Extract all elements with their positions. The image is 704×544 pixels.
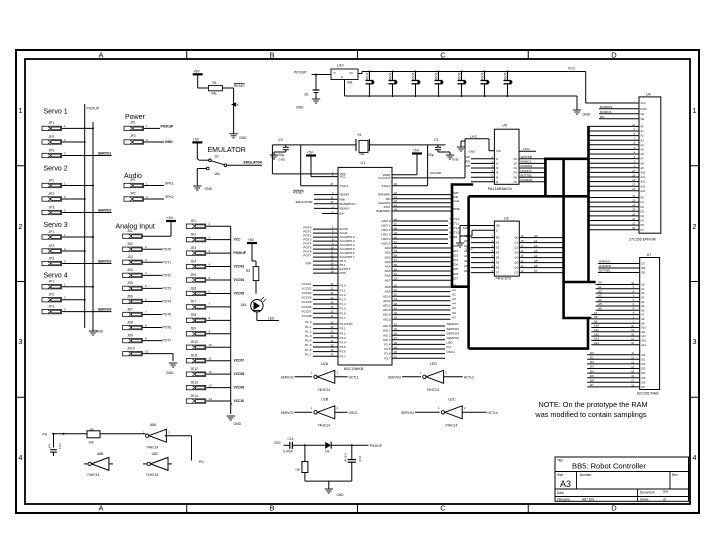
svg-text:VAL: VAL xyxy=(347,81,353,85)
svg-text:VCC: VCC xyxy=(641,101,647,105)
svg-text:AD5: AD5 xyxy=(464,259,470,263)
svg-text:A9: A9 xyxy=(641,321,645,325)
svg-text:100n: 100n xyxy=(434,73,438,81)
svg-text:2: 2 xyxy=(692,222,696,231)
svg-text:Servo 4: Servo 4 xyxy=(44,273,68,280)
svg-text:100n: 100n xyxy=(503,73,507,81)
label Servo 2 xyxy=(44,166,68,173)
svg-text:GND: GND xyxy=(166,371,174,375)
svg-text:AD14: AD14 xyxy=(383,313,391,317)
pins U7 control xyxy=(598,260,646,275)
svg-text:A1: A1 xyxy=(452,288,456,292)
svg-text:2: 2 xyxy=(18,222,22,231)
+5V (reset) xyxy=(193,70,209,89)
wire (osc mid) xyxy=(293,444,325,446)
wire (osc gnd rail) xyxy=(305,480,352,482)
ground (JE bus) xyxy=(227,416,242,426)
svg-text:SERVO3: SERVO3 xyxy=(447,331,460,335)
svg-text:A8: A8 xyxy=(641,317,645,321)
svg-text:NMI: NMI xyxy=(340,197,346,201)
svg-text:+5V: +5V xyxy=(193,70,200,74)
capacitor C2 20p xyxy=(270,138,289,162)
connector JD6 xyxy=(123,294,172,303)
svg-text:Q5: Q5 xyxy=(514,261,518,265)
svg-text:BOTSEL: BOTSEL xyxy=(521,173,533,177)
svg-text:SERVO4: SERVO4 xyxy=(401,411,414,415)
svg-text:LED: LED xyxy=(447,341,454,345)
svg-text:A6: A6 xyxy=(598,307,602,311)
svg-text:Sheet: Sheet xyxy=(640,498,648,502)
connector JD8 xyxy=(123,320,172,329)
svg-text:14: 14 xyxy=(209,397,213,401)
svg-text:JP1: JP1 xyxy=(130,178,136,182)
svg-text:VCC03: VCC03 xyxy=(302,291,312,295)
svg-text:A5: A5 xyxy=(534,259,538,263)
svg-text:A11: A11 xyxy=(641,330,646,334)
svg-text:PAL16R8ACN: PAL16R8ACN xyxy=(488,187,512,191)
+5V rail (analog input) xyxy=(142,216,176,236)
svg-text:PL.6: PL.6 xyxy=(305,348,312,352)
svg-text:AD9: AD9 xyxy=(385,290,391,294)
svg-text:P3.1: P3.1 xyxy=(340,327,347,331)
connector JP2 Servo3 xyxy=(42,244,86,253)
svg-text:GND: GND xyxy=(205,187,213,191)
net RESET (pullup) xyxy=(231,84,245,134)
vertical net line PICKUP (servo bus) xyxy=(85,104,100,328)
svg-text:P2.6: P2.6 xyxy=(384,352,391,356)
svg-text:O5: O5 xyxy=(513,175,517,179)
svg-text:100n: 100n xyxy=(480,73,484,81)
svg-text:AD0: AD0 xyxy=(464,234,470,238)
svg-text:P3.5: P3.5 xyxy=(340,345,347,349)
connector JE1 xyxy=(186,219,230,228)
svg-text:O4: O4 xyxy=(513,171,517,175)
svg-text:20p: 20p xyxy=(428,153,434,157)
svg-text:CLK: CLK xyxy=(496,149,501,153)
svg-text:IO1: IO1 xyxy=(641,357,646,361)
pin XTAL2 xyxy=(382,145,428,188)
svg-text:VCC: VCC xyxy=(568,66,576,70)
svg-text:ROMDIS: ROMDIS xyxy=(600,105,612,109)
svg-text:74HC14: 74HC14 xyxy=(87,473,100,477)
svg-text:BB5: Robot Controller: BB5: Robot Controller xyxy=(572,462,646,471)
svg-text:P2.4: P2.4 xyxy=(384,343,391,347)
svg-text:JP2: JP2 xyxy=(130,134,136,138)
svg-text:D2: D2 xyxy=(496,246,500,250)
svg-text:IO4: IO4 xyxy=(641,371,646,375)
capacitor C9 100n xyxy=(480,71,489,98)
svg-text:+5V: +5V xyxy=(307,151,314,155)
svg-text:JE12: JE12 xyxy=(191,367,199,371)
svg-text:EMULATOR: EMULATOR xyxy=(208,147,246,154)
svg-text:U8C: U8C xyxy=(152,452,159,456)
svg-text:JP3: JP3 xyxy=(49,256,55,260)
wire (reg out to VCC rail) xyxy=(358,72,362,74)
svg-text:S1: S1 xyxy=(215,155,219,159)
wire (bottom JE tail) xyxy=(231,403,232,405)
svg-text:VCC: VCC xyxy=(234,238,242,242)
svg-text:VCC02: VCC02 xyxy=(302,286,312,290)
connector JE5 xyxy=(186,273,244,282)
connector JE13 xyxy=(186,380,244,389)
svg-text:IO7: IO7 xyxy=(641,385,646,389)
svg-text:O1: O1 xyxy=(513,157,517,161)
wire (LED to net) xyxy=(257,312,279,321)
svg-text:AD10: AD10 xyxy=(383,294,391,298)
label EMULATOR xyxy=(208,147,246,154)
svg-text:IO3: IO3 xyxy=(641,367,646,371)
svg-text:POT0: POT0 xyxy=(163,247,172,251)
pin U4 VCC xyxy=(586,101,646,105)
svg-text:Q3: Q3 xyxy=(514,251,518,255)
svg-text:P3.2: P3.2 xyxy=(340,331,347,335)
svg-text:VCC05: VCC05 xyxy=(302,300,312,304)
switch S1 xyxy=(207,155,227,177)
svg-text:A4: A4 xyxy=(641,300,645,304)
svg-text:HSO.4: HSO.4 xyxy=(381,237,390,241)
svg-text:74HC14: 74HC14 xyxy=(318,423,331,427)
svg-text:A: A xyxy=(98,504,103,513)
svg-text:JP2: JP2 xyxy=(130,192,136,196)
svg-text:HCTL1: HCTL1 xyxy=(349,375,359,379)
svg-text:D2: D2 xyxy=(590,360,594,364)
pins AD0-AD7 (right, to bus) xyxy=(385,244,459,282)
svg-text:PL.3: PL.3 xyxy=(305,334,312,338)
svg-text:74HC14: 74HC14 xyxy=(146,445,159,449)
svg-text:P3.6: P3.6 xyxy=(340,350,347,354)
connector JE7 xyxy=(186,300,230,309)
capacitor C16 xyxy=(344,445,362,481)
svg-text:S%: S% xyxy=(663,490,668,494)
svg-text:GND: GND xyxy=(337,493,345,497)
crystal X1 xyxy=(356,133,369,156)
svg-text:A13: A13 xyxy=(641,339,646,343)
inverter U8A xyxy=(143,423,171,450)
svg-text:AD4: AD4 xyxy=(464,254,470,258)
svg-text:B: B xyxy=(269,504,274,513)
vertical net line (JE bus) xyxy=(230,226,232,414)
svg-text:RAMCS: RAMCS xyxy=(599,260,610,264)
connector JE2 xyxy=(186,232,241,241)
svg-text:JE4: JE4 xyxy=(191,259,197,263)
svg-text:AD8: AD8 xyxy=(385,285,391,289)
svg-text:A3: A3 xyxy=(534,249,538,253)
bus (left vertical) xyxy=(467,196,470,348)
svg-text:JE10: JE10 xyxy=(191,340,199,344)
svg-text:RXD: RXD xyxy=(340,271,347,275)
svg-text:20p: 20p xyxy=(278,153,284,157)
connector JD9 xyxy=(123,333,172,342)
svg-text:C2: C2 xyxy=(278,138,282,142)
ground (U3 OE) xyxy=(456,224,500,251)
svg-text:PU: PU xyxy=(43,433,48,437)
svg-text:P3.0/TXD: P3.0/TXD xyxy=(340,322,354,326)
svg-text:SERVO1: SERVO1 xyxy=(98,152,111,156)
svg-text:1: 1 xyxy=(18,106,22,115)
svg-text:POT6: POT6 xyxy=(163,326,172,330)
svg-text:POT7: POT7 xyxy=(303,253,311,257)
svg-text:AD0: AD0 xyxy=(385,246,391,250)
svg-text:Q1: Q1 xyxy=(514,241,518,245)
svg-text:OSC2: OSC2 xyxy=(349,411,358,415)
svg-text:SERVO2: SERVO2 xyxy=(98,209,111,213)
svg-text:A6: A6 xyxy=(641,152,645,156)
connector JP2 Audio xyxy=(124,192,174,202)
pin RESET xyxy=(293,190,349,197)
svg-text:VAL: VAL xyxy=(241,303,247,307)
svg-text:VCC05: VCC05 xyxy=(234,291,245,295)
svg-text:100n: 100n xyxy=(457,73,461,81)
svg-text:D6: D6 xyxy=(590,379,594,383)
svg-text:ROMCS: ROMCS xyxy=(521,169,532,173)
svg-text:U2B: U2B xyxy=(321,397,329,401)
svg-text:A4: A4 xyxy=(641,143,645,147)
svg-text:AD15: AD15 xyxy=(383,317,391,321)
svg-text:A0: A0 xyxy=(641,283,645,287)
connector JD3 xyxy=(123,255,172,264)
capacitor C8 100n xyxy=(457,71,466,98)
svg-text:+5V: +5V xyxy=(248,238,255,242)
svg-text:O3: O3 xyxy=(513,166,517,170)
svg-text:HSO.0: HSO.0 xyxy=(381,219,390,223)
svg-text:JP2: JP2 xyxy=(49,293,55,297)
wire (osc top left) xyxy=(284,444,290,446)
capacitor C3 20p xyxy=(428,138,460,162)
svg-text:POT1: POT1 xyxy=(163,260,172,264)
svg-text:SERVO2: SERVO2 xyxy=(447,327,460,331)
svg-text:A1: A1 xyxy=(534,239,538,243)
svg-text:HSI.0: HSI.0 xyxy=(383,324,391,328)
svg-text:WE: WE xyxy=(641,266,645,270)
resistor R5 xyxy=(87,428,146,445)
svg-text:JE6: JE6 xyxy=(191,286,197,290)
resistor R3 xyxy=(246,261,259,294)
svg-text:74HC14: 74HC14 xyxy=(426,388,439,392)
svg-text:PICKUP: PICKUP xyxy=(161,125,175,129)
svg-text:C3: C3 xyxy=(434,138,438,142)
svg-text:P1.0: P1.0 xyxy=(340,284,347,288)
svg-text:Document: Document xyxy=(640,491,655,495)
svg-text:Filename: Filename xyxy=(557,498,570,502)
svg-text:POT7: POT7 xyxy=(163,339,172,343)
svg-text:JP3: JP3 xyxy=(49,304,55,308)
IC U5 PAL16R8 xyxy=(488,123,519,191)
pins U7 address A0-A14 (from bus) xyxy=(591,281,646,347)
svg-text:74HC14: 74HC14 xyxy=(318,388,331,392)
svg-text:GND: GND xyxy=(234,422,242,426)
svg-text:VCC10: VCC10 xyxy=(234,399,245,403)
svg-text:U1: U1 xyxy=(361,161,366,165)
svg-text:JP2: JP2 xyxy=(49,135,55,139)
svg-text:was modified to contain sampli: was modified to contain samplings xyxy=(534,410,646,419)
connector JP3 Servo3 xyxy=(42,256,112,265)
pins U5 outputs (to bus) xyxy=(513,155,545,184)
svg-text:AD1: AD1 xyxy=(464,239,470,243)
svg-text:D5: D5 xyxy=(496,261,500,265)
svg-text:JP2: JP2 xyxy=(49,192,55,196)
svg-text:JE13: JE13 xyxy=(191,380,199,384)
pins U3 inputs AD0-AD7 xyxy=(464,234,500,275)
connector JP2 Power xyxy=(124,134,173,144)
wire (xtal rail right) xyxy=(369,144,445,146)
svg-text:A2: A2 xyxy=(641,134,645,138)
connector JP1 Audio xyxy=(124,178,174,188)
svg-text:D6: D6 xyxy=(641,223,645,227)
svg-text:RAMWR: RAMWR xyxy=(521,164,533,168)
pins ACH0-ACH7 (left) xyxy=(303,225,354,275)
svg-text:0.47uF: 0.47uF xyxy=(344,453,348,463)
svg-text:Rev: Rev xyxy=(672,473,678,477)
svg-text:P2.7: P2.7 xyxy=(384,356,391,360)
svg-text:RESET: RESET xyxy=(340,193,350,197)
svg-text:B1: B1 xyxy=(305,93,309,97)
svg-text:D0: D0 xyxy=(590,351,594,355)
svg-text:C: C xyxy=(440,504,446,513)
svg-text:D7: D7 xyxy=(641,228,645,232)
vertical net line to GND (servo bus) xyxy=(92,122,94,328)
svg-text:4: 4 xyxy=(18,453,22,462)
svg-text:D2: D2 xyxy=(325,450,329,454)
net label PICKUP (reg in) xyxy=(294,70,331,74)
pins HSO0-HSO5 (right) xyxy=(381,217,459,245)
svg-text:JD6: JD6 xyxy=(127,294,133,298)
svg-text:HSO.5: HSO.5 xyxy=(381,242,390,246)
svg-text:SERVO1: SERVO1 xyxy=(447,322,460,326)
bus (AD bus vertical) xyxy=(452,185,473,287)
svg-text:AD2: AD2 xyxy=(385,255,391,259)
svg-text:ROMCS: ROMCS xyxy=(600,110,612,114)
svg-text:EMULATOR: EMULATOR xyxy=(244,161,263,165)
svg-text:LINC: LINC xyxy=(523,147,531,151)
pin READY xyxy=(314,205,350,211)
svg-text:R3: R3 xyxy=(246,269,250,273)
pins AD8-AD15 (right, to bus) xyxy=(383,283,456,321)
svg-text:C16: C16 xyxy=(358,456,362,462)
net label PICKUP (osc) xyxy=(370,444,383,448)
ground (caps rail) xyxy=(573,96,591,117)
svg-text:JD9: JD9 xyxy=(127,333,133,337)
connector JE10 xyxy=(186,340,230,349)
svg-text:100n: 100n xyxy=(365,73,369,81)
svg-text:OE: OE xyxy=(641,117,645,121)
svg-text:AD6: AD6 xyxy=(464,264,470,268)
connector JP3 Servo4 xyxy=(42,304,112,313)
svg-text:D3: D3 xyxy=(641,209,645,213)
svg-text:CS: CS xyxy=(641,262,645,266)
svg-text:JP2: JP2 xyxy=(49,244,55,248)
connector JD2 xyxy=(123,242,172,251)
svg-text:Q4: Q4 xyxy=(514,256,518,260)
svg-text:A0: A0 xyxy=(534,234,538,238)
svg-text:H87.S01: H87.S01 xyxy=(582,498,595,502)
svg-text:GND: GND xyxy=(452,158,460,162)
svg-text:13: 13 xyxy=(209,383,213,387)
svg-text:JP3: JP3 xyxy=(49,148,55,152)
svg-text:A10: A10 xyxy=(641,171,646,175)
connector JE8 xyxy=(186,313,230,322)
svg-text:P1.7: P1.7 xyxy=(340,316,347,320)
svg-text:D1: D1 xyxy=(590,356,594,360)
svg-text:Title: Title xyxy=(557,459,563,463)
connector JP2 Servo4 xyxy=(42,293,86,302)
connector JE11 xyxy=(186,354,244,363)
svg-text:BUSWIDTH: BUSWIDTH xyxy=(340,202,356,206)
pin CLKOUT (to PAL clock) xyxy=(378,135,494,180)
svg-text:A13: A13 xyxy=(641,184,646,188)
GND rail (caps) xyxy=(345,80,578,97)
svg-text:VCC: VCC xyxy=(340,175,347,179)
connector JP2 Servo1 xyxy=(42,135,86,144)
svg-text:100n: 100n xyxy=(388,73,392,81)
svg-text:A1: A1 xyxy=(641,287,645,291)
connector JE12 xyxy=(186,367,244,376)
svg-text:+5V: +5V xyxy=(193,138,200,142)
svg-text:Servo 3: Servo 3 xyxy=(44,222,68,229)
svg-text:Number: Number xyxy=(580,473,592,477)
svg-text:1: 1 xyxy=(692,106,696,115)
svg-text:Size: Size xyxy=(557,473,563,477)
svg-text:10: 10 xyxy=(145,349,149,353)
svg-text:A11: A11 xyxy=(641,175,646,179)
svg-text:JP3: JP3 xyxy=(49,205,55,209)
svg-text:A6: A6 xyxy=(534,264,538,268)
svg-text:PL.7: PL.7 xyxy=(305,352,312,356)
svg-text:100n: 100n xyxy=(411,73,415,81)
label Servo 4 xyxy=(44,273,68,280)
svg-text:RD: RD xyxy=(600,115,605,119)
connector JE14 xyxy=(186,394,244,403)
svg-text:U5: U5 xyxy=(503,123,508,127)
svg-text:JD1: JD1 xyxy=(127,229,133,233)
connector JP1 Servo3 xyxy=(42,230,94,239)
svg-text:C: C xyxy=(496,228,498,232)
svg-text:GND: GND xyxy=(469,150,477,154)
svg-text:D7: D7 xyxy=(496,271,500,275)
connector JE6 xyxy=(186,286,244,295)
svg-text:A7: A7 xyxy=(534,269,538,273)
svg-text:74HC573: 74HC573 xyxy=(495,277,511,281)
svg-text:HSO.2: HSO.2 xyxy=(381,228,390,232)
svg-text:A3: A3 xyxy=(452,297,456,301)
inverter U2C xyxy=(281,397,358,427)
svg-text:A7: A7 xyxy=(641,313,645,317)
svg-text:PL.0: PL.0 xyxy=(305,320,312,324)
svg-text:74HC14: 74HC14 xyxy=(445,423,458,427)
ground (emulator) xyxy=(193,169,212,191)
svg-text:NOTE: On the prototype the RAM: NOTE: On the prototype the RAM xyxy=(538,400,647,409)
svg-text:RESET: RESET xyxy=(234,84,245,88)
svg-text:of: of xyxy=(663,498,666,502)
svg-text:AD7: AD7 xyxy=(464,269,470,273)
svg-text:D0: D0 xyxy=(641,196,645,200)
svg-text:VCC03: VCC03 xyxy=(234,265,245,269)
svg-text:A12: A12 xyxy=(641,334,646,338)
connector JP2 Servo2 xyxy=(42,192,86,201)
svg-text:Q2: Q2 xyxy=(514,246,518,250)
svg-text:GND: GND xyxy=(296,106,304,110)
connector JE4 xyxy=(186,259,244,268)
svg-text:PWM: PWM xyxy=(450,235,458,239)
ground (osc) xyxy=(325,481,345,497)
svg-text:VCC06: VCC06 xyxy=(302,305,312,309)
svg-text:VAL: VAL xyxy=(359,152,365,156)
svg-text:CLKOUT: CLKOUT xyxy=(378,176,390,180)
svg-text:A1: A1 xyxy=(641,129,645,133)
svg-text:P1.4: P1.4 xyxy=(340,302,347,306)
svg-text:VCC07: VCC07 xyxy=(234,359,245,363)
svg-text:P3.7: P3.7 xyxy=(340,354,347,358)
net PU (input) xyxy=(43,433,88,437)
